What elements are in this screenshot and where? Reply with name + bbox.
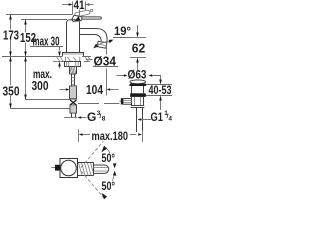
svg-text:40-53: 40-53 (149, 83, 172, 97)
svg-text:19°: 19° (114, 24, 131, 38)
svg-text:50°: 50° (102, 151, 116, 165)
svg-text:50°: 50° (102, 179, 116, 193)
svg-text:Ø63: Ø63 (128, 67, 147, 81)
svg-text:G: G (87, 110, 96, 124)
svg-text:350: 350 (3, 84, 20, 99)
svg-text:G1: G1 (151, 110, 164, 124)
svg-text:8: 8 (102, 116, 106, 123)
svg-text:300: 300 (32, 78, 49, 93)
svg-text:104: 104 (86, 82, 104, 97)
svg-text:max.180: max.180 (92, 129, 129, 143)
svg-text:4: 4 (168, 115, 172, 122)
svg-text:173: 173 (3, 28, 19, 43)
svg-text:62: 62 (132, 41, 146, 56)
